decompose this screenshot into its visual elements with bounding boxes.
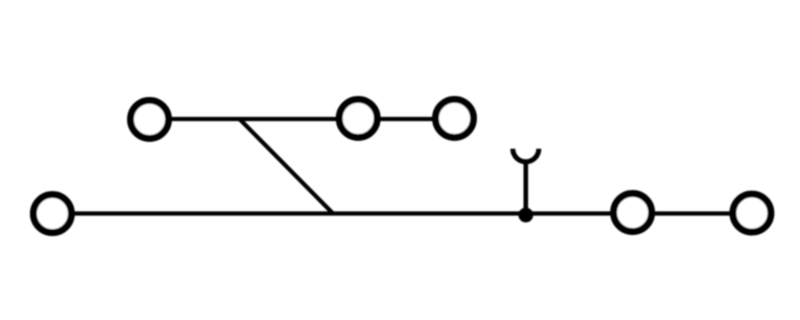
wire: top conductor (150, 117, 455, 121)
junction dot (518, 208, 533, 223)
terminal 2 (top middle) (339, 99, 377, 137)
wire: diagonal cross-connection from top conductor to bottom conductor (240, 119, 334, 214)
terminal 3 (top right) (436, 99, 474, 137)
wire: bottom conductor (52, 211, 752, 215)
terminal 4 (bottom left) (33, 195, 71, 233)
terminal 5 (bottom middle right) (614, 194, 652, 232)
terminal 6 (bottom far right) (733, 194, 771, 232)
wire: test-tap stem (523, 162, 528, 216)
test socket (fork) symbol (513, 149, 539, 162)
terminal 1 (top left) (131, 100, 169, 138)
